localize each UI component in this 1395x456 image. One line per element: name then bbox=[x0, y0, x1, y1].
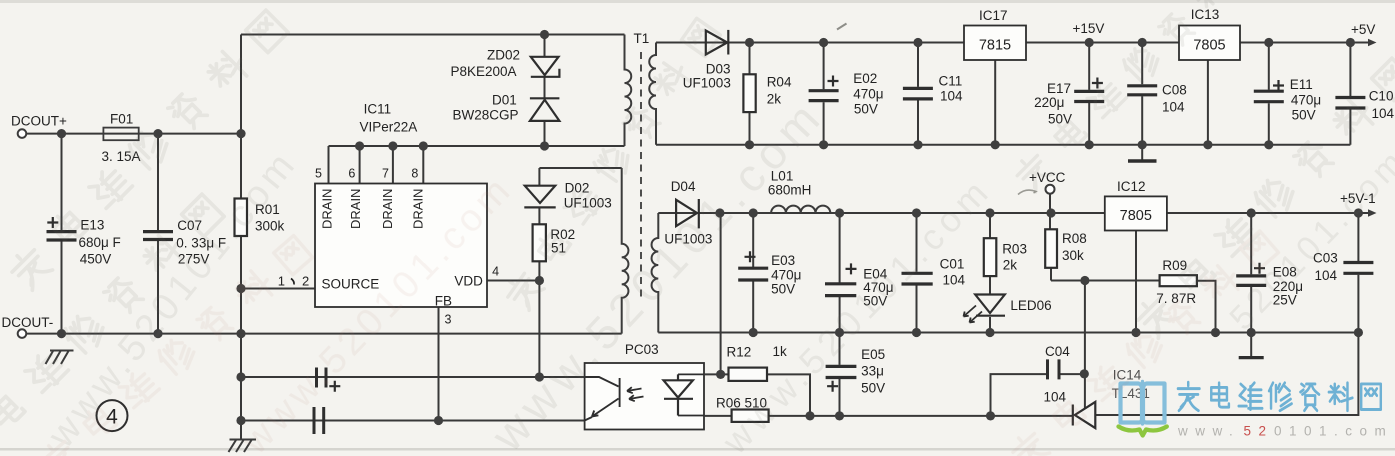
svg-text:www.: www. bbox=[1177, 424, 1240, 439]
svg-text:R04: R04 bbox=[767, 75, 792, 90]
watermark chinese row right bbox=[1133, 57, 1395, 340]
svg-text:2k: 2k bbox=[767, 92, 782, 107]
svg-text:IC17: IC17 bbox=[979, 8, 1008, 23]
capacitor C03 plates bbox=[1343, 263, 1373, 274]
svg-text:104: 104 bbox=[943, 273, 966, 288]
zener ZD02 bbox=[531, 57, 560, 77]
wire: E03 column bbox=[752, 213, 754, 333]
svg-text:C04: C04 bbox=[1045, 344, 1070, 359]
wire: +VCC stub and R08 column bbox=[1050, 194, 1085, 281]
capacitor C01 plates bbox=[902, 273, 933, 284]
svg-text:DRAIN: DRAIN bbox=[320, 189, 335, 229]
capacitor C10 plates bbox=[1335, 98, 1365, 109]
watermark chinese row center bbox=[502, 17, 722, 311]
capacitor E03 polarity + bbox=[745, 251, 756, 262]
svg-text:BW28CGP: BW28CGP bbox=[453, 108, 519, 123]
wire: DCOUT+ rail bbox=[27, 133, 242, 135]
wire: section1 ground rail bbox=[656, 144, 1350, 146]
watermark chinese row left-lower bbox=[0, 193, 225, 456]
resistor R04 bbox=[743, 74, 755, 112]
svg-text:52: 52 bbox=[1244, 424, 1274, 439]
junctions on drain wire bbox=[355, 141, 549, 150]
stray pen mark top bbox=[837, 24, 847, 30]
wire: R01/source column x=241 bbox=[240, 134, 242, 440]
capacitor E13 plates bbox=[47, 232, 77, 240]
svg-text:104: 104 bbox=[1372, 106, 1395, 121]
capacitor E03 plates bbox=[738, 268, 768, 280]
svg-text:D03: D03 bbox=[706, 62, 731, 77]
scan texture bottom band bbox=[0, 448, 1395, 451]
IC11 VIPer22A box bbox=[315, 184, 487, 308]
wire: R06 leads bbox=[704, 415, 1073, 417]
svg-text:R12: R12 bbox=[727, 345, 752, 360]
ground bar below E08 bbox=[1239, 356, 1264, 359]
ground symbol below feedback caps bbox=[229, 440, 257, 453]
wire: VDD pin wire bbox=[487, 280, 539, 282]
svg-text:C11: C11 bbox=[939, 74, 963, 89]
svg-text:3: 3 bbox=[445, 313, 452, 327]
junctions on main negative rail bbox=[57, 329, 246, 338]
svg-text:C08: C08 bbox=[1162, 83, 1187, 98]
capacitor E08 polarity + bbox=[1254, 263, 1265, 274]
wire: feedback cap row 2 bbox=[241, 420, 585, 422]
wire: C08 column and ground stub bbox=[1141, 43, 1143, 160]
svg-text:D01: D01 bbox=[492, 93, 517, 108]
wire: SOURCE pin wire bbox=[241, 288, 315, 290]
svg-text:R08: R08 bbox=[1062, 231, 1087, 246]
wire: +15V/+5V output top rail bbox=[656, 42, 1371, 44]
resistor R09 bbox=[1160, 275, 1197, 286]
wire: section2 ground rail bbox=[658, 332, 1358, 334]
svg-text:LED06: LED06 bbox=[1010, 298, 1051, 313]
svg-text:DRAIN: DRAIN bbox=[380, 189, 395, 229]
junctions on feedback row 2 bbox=[236, 416, 443, 425]
svg-text:IC12: IC12 bbox=[1117, 179, 1146, 194]
svg-text:104: 104 bbox=[1315, 268, 1338, 283]
diode D02 bbox=[524, 186, 555, 208]
svg-text:1k: 1k bbox=[773, 344, 788, 359]
watermark chinese row pink bottom bbox=[1008, 229, 1279, 456]
svg-text:1: 1 bbox=[278, 274, 285, 289]
capacitor C07 plates bbox=[143, 232, 173, 240]
junctions on +15V/+5V top rail bbox=[745, 38, 1355, 47]
terminal: DCOUT+ bbox=[18, 129, 27, 138]
svg-text:30k: 30k bbox=[1062, 248, 1084, 263]
svg-text:104: 104 bbox=[1044, 390, 1067, 405]
transformer T1 core bbox=[640, 52, 642, 300]
wire: D02-R02-VDD column bbox=[538, 207, 540, 377]
svg-text:FB: FB bbox=[435, 294, 452, 309]
capacitor E02 polarity + bbox=[828, 76, 839, 87]
wire: R03/LED06 column bbox=[989, 213, 991, 333]
diode D01 bbox=[530, 98, 560, 121]
svg-text:220μ: 220μ bbox=[1034, 95, 1064, 110]
svg-text:ZD02: ZD02 bbox=[487, 48, 520, 63]
resistor R06 bbox=[732, 410, 769, 422]
svg-text:50V: 50V bbox=[861, 381, 885, 396]
feedback capacitor row1 plates bbox=[317, 368, 327, 388]
PC03 light arrows bbox=[627, 387, 644, 401]
capacitor E13 polarity + bbox=[47, 217, 58, 228]
resistor R12 bbox=[729, 368, 768, 381]
fuse F01 bbox=[103, 128, 138, 141]
PC03 phototransistor bbox=[585, 377, 620, 421]
capacitor E05 polarity + bbox=[827, 381, 838, 392]
capacitor C11 plates bbox=[903, 88, 933, 99]
wire: R12 leads bbox=[704, 374, 810, 416]
capacitor E04 polarity + bbox=[846, 263, 857, 274]
svg-text:DCOUT+: DCOUT+ bbox=[11, 114, 67, 129]
wire: IC12 center pin bbox=[1135, 231, 1137, 333]
transformer T1 secondary-2 winding bbox=[652, 213, 659, 333]
svg-text:E17: E17 bbox=[1047, 81, 1071, 96]
transformer T1 aux winding bbox=[622, 168, 629, 334]
terminal: +VCC bbox=[1046, 185, 1055, 194]
junctions on +5V-1 rail bbox=[715, 208, 1363, 217]
capacitor C08 plates bbox=[1127, 86, 1157, 95]
IC14 TL431 symbol bbox=[1073, 402, 1096, 428]
resistor R02 bbox=[533, 224, 546, 261]
svg-text:50V: 50V bbox=[1292, 108, 1316, 123]
wire: R04 column bbox=[749, 43, 751, 145]
circled figure number 4 bbox=[97, 400, 128, 431]
svg-text:7815: 7815 bbox=[979, 38, 1011, 54]
logo book icon bbox=[1121, 382, 1165, 425]
wire: C04/TL431 reference column bbox=[1084, 281, 1086, 409]
svg-text:7805: 7805 bbox=[1193, 38, 1225, 54]
svg-text:+15V: +15V bbox=[1073, 21, 1105, 36]
svg-text:UF1003: UF1003 bbox=[683, 76, 731, 91]
svg-text:VIPer22A: VIPer22A bbox=[360, 120, 418, 135]
svg-text:470μ: 470μ bbox=[853, 87, 883, 102]
svg-text:+5V: +5V bbox=[1351, 22, 1375, 37]
svg-text:SOURCE: SOURCE bbox=[322, 277, 380, 292]
junction at R08/R09 node bbox=[1080, 276, 1089, 285]
svg-text:450V: 450V bbox=[80, 252, 112, 267]
svg-text:IC11: IC11 bbox=[364, 102, 392, 117]
LED06 symbol bbox=[964, 295, 1006, 323]
wire: ZD02/D01 column bbox=[544, 35, 546, 147]
watermark chinese row top-right bbox=[1012, 0, 1269, 193]
wire: E02 column bbox=[823, 43, 825, 145]
wire: D02 anode feed from aux winding bbox=[539, 168, 621, 186]
wire: FB pin line bbox=[438, 307, 440, 421]
svg-text:8: 8 bbox=[411, 167, 418, 181]
junctions at R12/C04 row bbox=[716, 369, 1089, 379]
capacitor E05 plates bbox=[826, 366, 857, 377]
diode D03 bbox=[706, 30, 729, 55]
junctions on section2 ground rail bbox=[749, 328, 1363, 337]
svg-text:DRAIN: DRAIN bbox=[348, 189, 363, 229]
IC12 7805 box bbox=[1105, 196, 1167, 230]
svg-text:DCOUT-: DCOUT- bbox=[2, 315, 54, 330]
inductor L01 bbox=[720, 206, 840, 213]
wire: IC17 center pin bbox=[994, 60, 996, 145]
capacitor E17 polarity + bbox=[1092, 78, 1103, 89]
capacitor E04 plates bbox=[825, 284, 856, 296]
wire: C04 row bbox=[991, 374, 1085, 416]
transformer T1 secondary-1 winding bbox=[649, 43, 656, 145]
svg-text:50V: 50V bbox=[771, 282, 795, 297]
capacitor E11 plates bbox=[1254, 91, 1284, 102]
svg-text:0101.com: 0101.com bbox=[1274, 424, 1393, 439]
wire: C01 column bbox=[916, 213, 918, 333]
svg-text:104: 104 bbox=[940, 89, 963, 104]
svg-text:T1: T1 bbox=[634, 31, 650, 46]
wire: C03 column bbox=[1357, 213, 1359, 333]
junctions on section1 ground rail bbox=[745, 140, 1274, 149]
junction on primary top rail bbox=[540, 30, 549, 39]
wire: TL431 output loop bbox=[1095, 333, 1358, 416]
wire: C10 column bbox=[1349, 43, 1351, 145]
svg-text:C01: C01 bbox=[940, 257, 965, 272]
wire: E04 column bbox=[839, 213, 841, 333]
svg-text:E11: E11 bbox=[1290, 77, 1313, 92]
svg-text:E02: E02 bbox=[853, 71, 877, 86]
scan texture top edge bbox=[0, 0, 1395, 3]
junctions on feedback row 1 bbox=[236, 372, 544, 381]
svg-text:5: 5 bbox=[315, 167, 322, 181]
capacitor C04 plates bbox=[1048, 359, 1060, 379]
ground symbol below C08 bbox=[1128, 159, 1157, 162]
svg-text:6: 6 bbox=[348, 167, 355, 181]
wire: drain pin rail bbox=[329, 146, 625, 184]
svg-text:7: 7 bbox=[382, 167, 389, 181]
pin names DRAIN x4 bbox=[320, 189, 426, 229]
+5V-1 arrow head bbox=[1368, 209, 1377, 217]
svg-text:470μ: 470μ bbox=[1291, 93, 1321, 108]
svg-text:7805: 7805 bbox=[1120, 208, 1152, 224]
wire: E08 column and ground stub bbox=[1250, 213, 1252, 356]
junctions on R06/TL431 row bbox=[805, 411, 995, 420]
resistor R01 bbox=[235, 199, 248, 237]
svg-text:PC03: PC03 bbox=[625, 342, 659, 357]
optocoupler PC03 box bbox=[585, 363, 704, 430]
svg-text:R03: R03 bbox=[1002, 242, 1027, 257]
junction at SOURCE node bbox=[236, 284, 245, 293]
wire: primary top rail bbox=[241, 35, 625, 134]
wire: main negative rail (DCOUT-) bbox=[27, 333, 622, 335]
logo url www.520101.com bbox=[1177, 424, 1393, 439]
svg-text:2: 2 bbox=[302, 274, 309, 289]
logo chinese title bbox=[1178, 382, 1381, 410]
svg-text:33μ: 33μ bbox=[861, 364, 884, 379]
terminal: DCOUT- bbox=[18, 329, 27, 338]
resistor R03 bbox=[984, 238, 997, 276]
svg-text:F01: F01 bbox=[110, 112, 133, 127]
wire: R09 row and right drop bbox=[1085, 281, 1216, 333]
svg-text:P8KE200A: P8KE200A bbox=[451, 64, 517, 79]
wire: C11 column bbox=[917, 43, 919, 145]
svg-text:IC13: IC13 bbox=[1191, 7, 1220, 22]
IC17 7815 box bbox=[964, 26, 1026, 61]
+5V arrow head bbox=[1368, 39, 1377, 47]
wire: E11 column bbox=[1268, 43, 1270, 145]
svg-text:DRAIN: DRAIN bbox=[411, 189, 426, 229]
capacitor E08 plates bbox=[1236, 276, 1266, 286]
stray pen mark near +VCC bbox=[1018, 190, 1036, 194]
transformer T1 primary winding bbox=[625, 35, 632, 147]
diode D04 bbox=[676, 199, 699, 228]
resistor R08 bbox=[1045, 229, 1057, 267]
IC13 7805 box bbox=[1179, 26, 1240, 61]
svg-text:VDD: VDD bbox=[454, 274, 483, 289]
wire: feedback cap row 1 bbox=[241, 376, 585, 378]
ground symbol at E13 bbox=[46, 351, 74, 365]
PC03 LED bbox=[664, 374, 705, 415]
feedback capacitor row1 polarity + bbox=[329, 381, 340, 392]
svg-text:D04: D04 bbox=[671, 179, 696, 194]
wire: C07 column bbox=[157, 134, 159, 334]
watermark chinese row pink bottom-left bbox=[38, 234, 313, 456]
svg-text:680μ F: 680μ F bbox=[79, 235, 121, 250]
svg-text:104: 104 bbox=[1162, 100, 1185, 115]
svg-text:E03: E03 bbox=[771, 253, 795, 268]
capacitor E11 polarity + bbox=[1273, 80, 1284, 91]
wire: E13 column bbox=[61, 134, 63, 334]
svg-text:4: 4 bbox=[492, 265, 499, 279]
junction at VDD node bbox=[535, 276, 544, 285]
svg-text:470μ: 470μ bbox=[771, 268, 801, 283]
watermark chinese row top-left bbox=[7, 9, 290, 292]
svg-text:2k: 2k bbox=[1003, 258, 1018, 273]
wire: E17 column bbox=[1088, 43, 1090, 145]
wire: IC13 center pin bbox=[1207, 60, 1209, 145]
svg-text:50V: 50V bbox=[854, 102, 878, 117]
logo green ribbon bbox=[1119, 427, 1167, 436]
junctions on DCOUT+ rail bbox=[57, 129, 246, 138]
feedback capacitor row2 plates bbox=[314, 407, 324, 434]
capacitor E02 plates bbox=[809, 91, 839, 101]
svg-text:E05: E05 bbox=[861, 347, 885, 362]
wire: R12 top feed column bbox=[720, 213, 722, 374]
capacitor E17 plates bbox=[1074, 91, 1104, 101]
wire: E05 column bbox=[839, 333, 841, 416]
wire: +5V-1 output rail bbox=[658, 212, 1371, 214]
